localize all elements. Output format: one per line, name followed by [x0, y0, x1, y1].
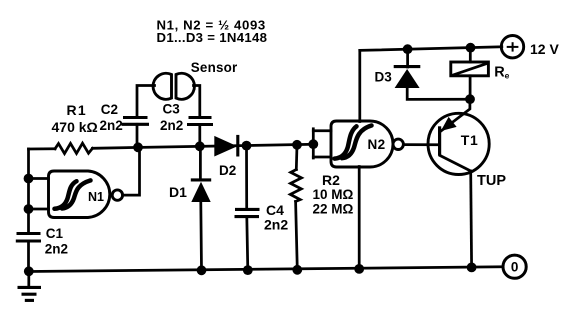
diode D1: [169, 146, 211, 202]
svg-text:C2: C2: [101, 102, 118, 117]
node: N1 input junction upper: [24, 174, 34, 184]
svg-text:R2: R2: [322, 172, 340, 188]
svg-text:C4: C4: [266, 202, 284, 218]
diode D2: [214, 135, 238, 178]
wire: top supply rail: [360, 47, 502, 51]
node: ground rail junction D1: [197, 265, 207, 275]
wire: N2 input tie bar and stubs: [313, 129, 331, 158]
sensor plate right: [176, 73, 194, 99]
wire: T1 collector to ground rail: [469, 171, 473, 267]
capacitor C3: [160, 102, 213, 134]
svg-text:22 MΩ: 22 MΩ: [313, 202, 354, 217]
node: N1 input junction lower: [24, 204, 34, 214]
capacitor C2: [100, 102, 150, 133]
terminal 0: [503, 255, 526, 278]
node: rail junction C3 / D1: [195, 141, 205, 151]
svg-text:D1: D1: [169, 184, 187, 200]
node: junction D3 / relay / T1 emitter: [465, 94, 475, 104]
node: N2 input tie junction: [308, 139, 318, 149]
wire: C4 bottom to ground rail: [247, 217, 248, 271]
wire: mid rail left segment from left wire to R1: [29, 147, 56, 150]
transistor T1 (PNP, TUP): [428, 99, 506, 189]
node: rail junction D2 / C4: [242, 141, 252, 151]
svg-text:D3: D3: [375, 70, 393, 85]
node: top rail junction D3: [403, 44, 413, 54]
svg-text:D2: D2: [219, 163, 236, 178]
sensor plate left: [153, 73, 171, 99]
svg-text:TUP: TUP: [477, 173, 506, 189]
terminal +12V: [501, 36, 559, 58]
wire: mid rail from R1 to N2 inputs: [93, 144, 314, 148]
svg-text:Sensor: Sensor: [191, 60, 238, 75]
wire: N2 top supply pin: [358, 50, 361, 121]
node: junction C1/ground rail: [24, 266, 34, 276]
node: rail junction R2: [292, 140, 302, 150]
diode D3: [375, 49, 421, 88]
op-amp gate N2 (Schmitt NAND): [331, 121, 403, 167]
resistor R1: [52, 102, 98, 154]
wire: left vertical from R1 down to C1: [27, 149, 30, 234]
node: rail junction C2 / N1 output: [133, 142, 143, 152]
svg-text:C1: C1: [46, 226, 64, 241]
wire: C2 bottom to rail: [136, 124, 139, 147]
resistor R2: [290, 145, 353, 217]
svg-text:10 MΩ: 10 MΩ: [313, 187, 354, 202]
svg-text:R1: R1: [67, 102, 88, 118]
svg-text:N1: N1: [88, 190, 104, 204]
svg-text:0: 0: [511, 260, 519, 275]
op-amp gate N1 (Schmitt NAND): [49, 171, 123, 218]
wire: N1 output feedback to rail: [123, 147, 140, 195]
wire: R2 bottom to ground rail: [296, 202, 298, 270]
wire: C1 bottom to ground rail: [27, 241, 30, 272]
node: top rail junction relay: [466, 43, 476, 53]
svg-text:2n2: 2n2: [100, 118, 123, 133]
svg-text:N2: N2: [368, 137, 386, 152]
wire: bottom ground rail: [29, 267, 503, 272]
wire: sensor right to C3: [194, 86, 200, 118]
wire: N1 lower input stub: [29, 208, 49, 211]
svg-text:470 kΩ: 470 kΩ: [52, 119, 98, 135]
svg-text:2n2: 2n2: [264, 217, 288, 233]
svg-text:2n2: 2n2: [45, 242, 68, 257]
ground: [18, 272, 42, 301]
svg-text:C3: C3: [163, 102, 181, 117]
node: ground rail junction R2: [292, 265, 302, 275]
wire: N1 upper input stub: [29, 177, 49, 180]
wire: C3 bottom to rail: [198, 125, 201, 147]
svg-text:12 V: 12 V: [530, 41, 559, 57]
wire: C2 top to sensor left: [137, 86, 155, 118]
wire: N2 output to T1 base: [404, 143, 439, 146]
node: ground rail junction T1: [467, 263, 477, 273]
wire: D1 bottom to ground rail: [199, 202, 202, 270]
svg-text:2n2: 2n2: [160, 118, 183, 133]
node: ground rail junction C4: [243, 265, 253, 275]
svg-text:T1: T1: [461, 132, 479, 148]
capacitor C4: [235, 146, 289, 233]
relay Re: [451, 48, 510, 99]
wire: N2 bottom supply pin: [358, 167, 361, 269]
svg-text:e: e: [505, 71, 510, 81]
wire: D3 bottom to emitter node: [407, 88, 470, 99]
svg-text:D1...D3 = 1N4148: D1...D3 = 1N4148: [157, 30, 268, 45]
node: ground rail junction N2 pin: [354, 264, 364, 274]
capacitor C1: [16, 226, 68, 257]
